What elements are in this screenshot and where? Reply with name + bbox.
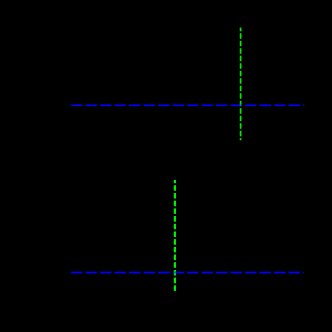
- crossing blend (top subplot): [240, 104, 242, 106]
- crossing blend (bottom subplot): [174, 272, 176, 274]
- green dashed vertical marker line (top subplot): [240, 28, 242, 141]
- blue dashed horizontal threshold line (bottom subplot): [71, 272, 304, 274]
- blue dashed horizontal threshold line (top subplot): [71, 104, 304, 106]
- green dashed vertical marker line (bottom subplot): [174, 180, 176, 291]
